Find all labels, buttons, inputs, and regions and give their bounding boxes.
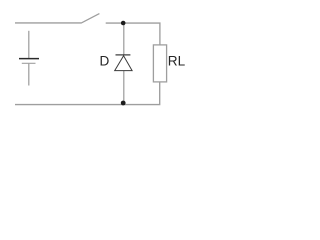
svg-text:D: D	[100, 54, 110, 69]
svg-text:RL: RL	[168, 54, 186, 69]
